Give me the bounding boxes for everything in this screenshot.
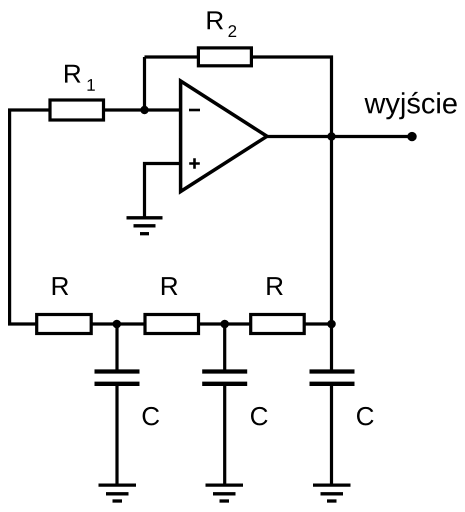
resistor R (second, bottom ladder) (145, 277, 199, 333)
node D (third RC junction) (327, 320, 336, 329)
node wyjscie label (output) (365, 92, 457, 119)
wire feedback vertical from node A up (143, 57, 146, 110)
resistor R2 (198, 11, 251, 65)
resistor R (third, bottom ladder) (251, 277, 305, 333)
ground (op-amp non-inverting input) (127, 218, 163, 234)
node F (output terminal) (407, 132, 416, 141)
op-amp U1 (181, 81, 267, 192)
resistor R (first, bottom ladder) (37, 277, 91, 333)
node E (output junction) (327, 132, 335, 140)
wire right rail down to third RC node (330, 137, 333, 325)
wire resistor ladder segment 1 (92, 322, 146, 325)
wire node C down to capacitor C2 (223, 324, 226, 370)
wire capacitor C3 to ground (330, 386, 333, 484)
capacitor C3 (310, 372, 374, 426)
wire resistor ladder segment 3 (305, 322, 332, 325)
resistor R1 (50, 65, 104, 120)
wire feedback top right from R2 to right rail (252, 57, 332, 137)
wire non-inverting input to ground (145, 164, 180, 217)
node A (inverting input junction) (140, 106, 148, 114)
node B (first RC junction) (113, 320, 122, 329)
wire feedback top left to R2 (145, 55, 199, 58)
wire capacitor C2 to ground (223, 386, 226, 484)
wire R1 to op-amp inverting input (103, 108, 181, 111)
wire resistor ladder segment 2 (200, 322, 252, 325)
ground (capacitor C1) (99, 485, 137, 501)
ground (capacitor C3) (313, 485, 351, 501)
wire node B down to capacitor C1 (115, 324, 118, 370)
capacitor C1 (95, 372, 160, 426)
wire left loop from R1 down to bottom RC ladder (10, 110, 49, 324)
wire capacitor C1 to ground (115, 386, 118, 484)
wire node D down to capacitor C3 (330, 324, 333, 370)
node C (second RC junction) (220, 320, 229, 329)
ground (capacitor C2) (206, 485, 244, 501)
capacitor C2 (202, 372, 267, 426)
wire op-amp output to terminal (266, 135, 412, 138)
